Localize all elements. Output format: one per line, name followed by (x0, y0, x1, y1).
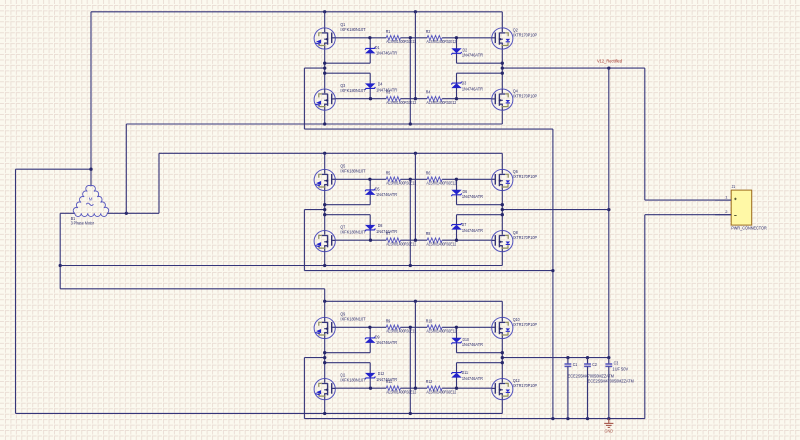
ground symbol GND (604, 419, 613, 434)
wire block2 gate bus 1 vertical (409, 179, 411, 265)
node block3 left FET source junction on bottom rail (323, 412, 326, 415)
node diode bottom-left tap (369, 387, 372, 390)
svg-text:R4: R4 (426, 90, 431, 95)
svg-text:J1: J1 (732, 184, 736, 189)
svg-text:IXFK180N10T: IXFK180N10T (340, 88, 366, 93)
svg-text:R10: R10 (426, 318, 433, 323)
svg-text:ALSR01400R0JE12: ALSR01400R0JE12 (426, 390, 456, 395)
node diode top-right tap (455, 178, 458, 181)
svg-text:ALSR01400R0JE12: ALSR01400R0JE12 (426, 242, 456, 247)
connector J1 PWR_CONNECTOR (715, 184, 767, 230)
node diode top-left tap (368, 36, 371, 39)
svg-text:R3: R3 (386, 90, 391, 95)
zener diode D8 (365, 225, 375, 231)
node left mid junction (323, 213, 326, 216)
svg-text:IXFK180N10T: IXFK180N10T (340, 27, 366, 32)
svg-text:D7: D7 (462, 222, 467, 227)
svg-text:R1: R1 (386, 29, 391, 34)
svg-text:2: 2 (725, 209, 728, 214)
wire block3 right FET column (501, 301, 503, 317)
svg-text:D8: D8 (378, 223, 383, 228)
svg-text:D9: D9 (375, 335, 380, 340)
node gate bus 1 top (409, 36, 412, 39)
svg-text:R7: R7 (386, 231, 391, 236)
wire D12 column (369, 363, 371, 389)
node right mid junction (501, 213, 504, 216)
node right mid2 junction (501, 208, 504, 211)
svg-text:D4: D4 (378, 82, 383, 87)
wire V12 bus vertical (608, 68, 610, 358)
node gate bus 1 bottom rail (409, 412, 412, 415)
wire block3 mid3 left (325, 362, 371, 364)
node capacitor C2 top (586, 356, 589, 359)
svg-text:1N4746ATR: 1N4746ATR (376, 50, 397, 55)
svg-text:1N4746ATR: 1N4746ATR (462, 376, 483, 381)
transistor Q12 (492, 378, 537, 400)
motor B1 (3 phase, delta) (71, 185, 109, 225)
wire block3 gate wire lower (335, 387, 386, 389)
wire D5 column (369, 179, 371, 204)
svg-text:R9: R9 (386, 318, 391, 323)
svg-text:1N4746ATR: 1N4746ATR (462, 53, 483, 58)
wire block1 gate wire lower (335, 98, 386, 100)
wire D2 column (456, 38, 458, 63)
node gate bus 1 bottom rail (409, 264, 412, 267)
resistor R7 (386, 231, 417, 246)
node block2 top rail / gate bus 2 (414, 152, 417, 155)
node block2 left FET source junction on bottom rail (323, 264, 326, 267)
node right mid2 junction (501, 66, 504, 69)
node diode top-left tap (368, 326, 371, 329)
resistor R4 (426, 90, 457, 105)
svg-text:1: 1 (725, 194, 728, 199)
svg-text:ALSR01400R0JE12: ALSR01400R0JE12 (386, 242, 416, 247)
wire phase-B riser to block2 top rail (158, 153, 160, 213)
node phase-A junction at motor riser (89, 168, 92, 171)
node left mid junction (323, 356, 326, 359)
wire phase-C horizontal to block3 (60, 288, 325, 290)
wire block2 right FET column (501, 153, 503, 169)
svg-text:1N4746ATR: 1N4746ATR (376, 192, 397, 197)
node diode bottom-right tap (455, 387, 458, 390)
svg-text:1N4746ATR: 1N4746ATR (462, 87, 483, 92)
node left mid junction (323, 62, 326, 65)
transistor Q1 (314, 22, 366, 49)
svg-text:C3: C3 (614, 361, 619, 366)
svg-text:1N4746ATR: 1N4746ATR (462, 342, 483, 347)
wire D10 column (456, 327, 458, 352)
wire block1 gate bus 1 vertical (409, 38, 411, 124)
wire block2 left FET column (324, 153, 326, 169)
wire block3 mid3 right (457, 362, 503, 364)
svg-text:R11: R11 (386, 379, 393, 384)
svg-text:ALSR01400R0JE12: ALSR01400R0JE12 (386, 390, 416, 395)
transistor Q10 (492, 317, 537, 339)
svg-text:R8: R8 (426, 231, 431, 236)
node diode bottom-left tap (369, 239, 372, 242)
svg-text:M: M (89, 197, 93, 202)
zener diode D10 (451, 338, 461, 344)
capacitor C3 (605, 358, 618, 419)
zener diode D7 (451, 223, 461, 229)
zener diode D4 (365, 83, 375, 89)
wire V12 from block1 mid to connector column (502, 67, 645, 69)
node V12 at block2 mid line (607, 208, 610, 211)
wire block3 mid2 left (gnd tap) (304, 357, 324, 359)
wire block1 right FET column (501, 12, 503, 28)
wire block2 mid1 left (325, 204, 371, 206)
wire phase-B motor to risers (107, 212, 159, 214)
resistor R12 (426, 379, 457, 394)
node GND bus at bottom rail (551, 417, 554, 420)
node block2 top rail / left FET drain (323, 152, 326, 155)
node diode top-right tap (455, 36, 458, 39)
wire block3 gate bus 2 vertical (414, 301, 416, 388)
zener diode D12 (365, 373, 375, 379)
svg-text:IXFK180N10T: IXFK180N10T (340, 230, 366, 235)
svg-text:C2: C2 (592, 362, 597, 367)
wire D3 column (456, 73, 458, 99)
node C2 bottom (586, 417, 589, 420)
resistor R11 (386, 379, 417, 394)
wire D7 column (456, 215, 458, 241)
svg-text:R2: R2 (426, 29, 431, 34)
wire block1 gate bus 2 vertical (414, 12, 416, 99)
node diode bottom-right tap (455, 239, 458, 242)
wire phase-A to motor apex vertical (90, 12, 92, 186)
node diode top-left tap (368, 178, 371, 181)
node gate bus 1 top (409, 326, 412, 329)
node gate bus 2 at lower gate wire (414, 97, 417, 100)
zener diode D9 (365, 337, 375, 343)
svg-text:R5: R5 (386, 170, 391, 175)
node gate bus 2 at lower gate wire (414, 239, 417, 242)
svg-text:1N4746ATR: 1N4746ATR (462, 228, 483, 233)
node C3 bottom / ground symbol (607, 417, 610, 420)
svg-text:ALSR01400R0JE12: ALSR01400R0JE12 (386, 181, 416, 186)
node diode bottom-right tap (455, 97, 458, 100)
wire block2 bottom rail (phase C) (60, 265, 502, 267)
resistor R8 (426, 231, 457, 246)
node block1 top rail / gate bus 2 (414, 10, 417, 13)
node left mid junction (323, 361, 326, 364)
wire phase-C left vertical (59, 213, 61, 288)
svg-text:D3: D3 (462, 80, 467, 85)
node C1 bottom (566, 417, 569, 420)
node right mid junction (501, 361, 504, 364)
node right mid junction (501, 62, 504, 65)
svg-text:V12_Rectified: V12_Rectified (597, 59, 623, 64)
svg-text:IXTR170P10P: IXTR170P10P (513, 174, 537, 179)
wire block1 mid1 left (325, 62, 371, 64)
wire block3 gate wire upper (335, 326, 386, 328)
transistor Q9 (314, 312, 366, 339)
node phase-C junction on block2 bottom rail (59, 264, 62, 267)
resistor R5 (386, 170, 417, 185)
wire GND vertical to pin2 (644, 215, 646, 419)
wire block1 gate wire upper (335, 37, 386, 39)
transistor Q8 (492, 230, 537, 252)
svg-text:D1: D1 (375, 45, 380, 50)
wire GND block2 drop (303, 210, 305, 271)
wire block2 gate bus 2 vertical (414, 153, 416, 240)
transistor Q2 (492, 27, 537, 49)
resistor R2 (426, 29, 457, 44)
svg-text:IXFK180N10T: IXFK180N10T (340, 317, 366, 322)
zener diode D3 (451, 82, 461, 88)
svg-text:D5: D5 (375, 187, 380, 192)
svg-text:IXTR170P10P: IXTR170P10P (513, 93, 537, 98)
node capacitor C3 top (607, 356, 610, 359)
wire block2 mid3 right (457, 214, 503, 216)
svg-text:IXFK180N10T: IXFK180N10T (340, 169, 366, 174)
node left mid junction (323, 208, 326, 211)
wire block2 mid2 left (gnd tap) (304, 209, 324, 211)
resistor R3 (386, 90, 417, 105)
transistor Q5 (314, 164, 366, 191)
svg-text:IXTR170P10P: IXTR170P10P (513, 32, 537, 37)
wire phase-B riser to block1 bottom rail (125, 124, 127, 213)
wire D11 column (456, 363, 458, 389)
wire block1 left FET column (324, 12, 326, 28)
wire block2 mid1 right (457, 204, 503, 206)
svg-text:1N4746ATR: 1N4746ATR (462, 194, 483, 199)
wire block2 gate wire upper (335, 178, 386, 180)
wire V12 to connector pin 1 (645, 199, 731, 201)
svg-text:1N4746ATR: 1N4746ATR (376, 340, 397, 345)
capacitor C2 (584, 358, 634, 419)
wire block1 mid3 right (457, 72, 503, 74)
node left mid junction (323, 203, 326, 206)
svg-text:ALSR01400R0JE12: ALSR01400R0JE12 (386, 329, 416, 334)
wire block1 mid3 left (325, 72, 371, 74)
svg-text:ALSR01400R0JE12: ALSR01400R0JE12 (386, 100, 416, 105)
svg-text:R12: R12 (426, 379, 433, 384)
node right mid junction (501, 203, 504, 206)
svg-text:R6: R6 (426, 170, 431, 175)
wire block3 left FET column (324, 301, 326, 317)
node left mid junction (323, 351, 326, 354)
svg-text:D11: D11 (462, 370, 469, 375)
svg-text:IXTR170P10P: IXTR170P10P (513, 383, 537, 388)
svg-text:PWR_CONNECTOR: PWR_CONNECTOR (731, 225, 767, 230)
svg-text:ALSR01400R0JE12: ALSR01400R0JE12 (426, 329, 456, 334)
wire V12 vertical to pin1 (644, 68, 646, 200)
node GND bus joins block2 (551, 269, 554, 272)
wire D6 column (456, 179, 458, 204)
resistor R9 (386, 318, 417, 333)
node gate bus 1 bottom rail (409, 122, 412, 125)
wire block2 top rail (phase B) (159, 152, 502, 154)
transistor Q11 (314, 373, 366, 400)
wire block2 gate wire lower (335, 239, 386, 241)
svg-text:ECE2S5M470050MZZATM: ECE2S5M470050MZZATM (568, 373, 614, 378)
node right mid junction (501, 351, 504, 354)
svg-text:ALSR01400R0JE12: ALSR01400R0JE12 (426, 181, 456, 186)
node left mid junction (323, 66, 326, 69)
pin 2 (715, 214, 731, 216)
svg-text:IXTR170P10P: IXTR170P10P (513, 322, 537, 327)
zener diode D1 (365, 47, 375, 53)
wire GND to connector pin 2 (645, 214, 731, 216)
wire block3 mid1 left (325, 352, 371, 354)
resistor R10 (426, 318, 457, 333)
wire block3 V12 mid line / capacitor rail (502, 357, 609, 359)
wire phase-A top: left riser horizontal (16, 168, 92, 170)
wire GND block1 drop (303, 68, 305, 129)
node V12 junction (607, 66, 610, 69)
wire block3 top rail (phase C) (325, 300, 503, 302)
resistor R1 (386, 29, 417, 44)
wire phase-A left vertical (15, 169, 17, 413)
wire GND block3 drop (303, 358, 305, 419)
wire block2 V12 mid line (502, 209, 609, 211)
wire block2 mid3 left (325, 214, 371, 216)
wire phase-C drop to block3 top rail (324, 289, 326, 302)
wire GND bottom rail (304, 418, 644, 420)
wire GND block1 horizontal (304, 128, 553, 130)
zener diode D5 (365, 189, 375, 195)
pin 1 (715, 199, 731, 201)
svg-text:D12: D12 (378, 371, 385, 376)
node right mid junction (501, 72, 504, 75)
svg-text:C1: C1 (573, 362, 578, 367)
svg-text:ALSR01400R0JE12: ALSR01400R0JE12 (426, 39, 456, 44)
wire GND bus vertical (552, 129, 554, 419)
node right mid2 junction (501, 356, 504, 359)
svg-text:ALSR01400R0JE12: ALSR01400R0JE12 (426, 100, 456, 105)
wire D4 column (369, 73, 371, 99)
node left mid junction (323, 72, 326, 75)
wire phase-C motor stub (60, 212, 75, 214)
wire D8 column (369, 215, 371, 241)
node diode bottom-left tap (369, 97, 372, 100)
capacitor C1 (565, 358, 615, 419)
wire block3 mid1 right (457, 352, 503, 354)
transistor Q7 (314, 225, 366, 252)
node block3 top rail / gate bus 2 (414, 300, 417, 303)
zener diode D6 (451, 190, 461, 196)
node capacitor C1 top (566, 356, 569, 359)
svg-text:1UF 50V: 1UF 50V (612, 366, 628, 371)
svg-text:IXFK180N10T: IXFK180N10T (340, 378, 366, 383)
svg-text:GND: GND (605, 429, 614, 434)
zener diode D2 (451, 48, 461, 54)
transistor Q3 (314, 83, 366, 110)
svg-text:3 Phase Motor: 3 Phase Motor (71, 220, 95, 225)
wire block3 gate bus 1 vertical (409, 327, 411, 413)
wire block1 mid2 left (gnd tap) (304, 67, 324, 69)
wire phase-A top rail block1 (91, 11, 502, 13)
node diode top-right tap (455, 326, 458, 329)
node phase-B junction (125, 212, 128, 215)
zener diode D11 (451, 371, 461, 377)
wire D9 column (369, 327, 371, 352)
svg-text:ECE2S5M470050MZZATM: ECE2S5M470050MZZATM (588, 379, 634, 384)
transistor Q6 (492, 169, 537, 191)
svg-text:IXTR170P10P: IXTR170P10P (513, 235, 537, 240)
svg-text:ALSR01400R0JE12: ALSR01400R0JE12 (386, 39, 416, 44)
node block1 left FET source junction on bottom rail (323, 122, 326, 125)
wire block1 mid1 right (457, 62, 503, 64)
wire block3 bottom rail (phase A) (16, 412, 503, 414)
resistor R6 (426, 170, 457, 185)
node block1 top rail / left FET drain (323, 10, 326, 13)
node gate bus 2 at lower gate wire (414, 387, 417, 390)
wire D1 column (369, 38, 371, 63)
wire GND block2 horizontal (304, 270, 553, 272)
transistor Q4 (492, 88, 537, 110)
node gate bus 1 top (409, 178, 412, 181)
wire block1 bottom rail (phase B) (126, 123, 502, 125)
node block3 top rail / left FET drain (323, 300, 326, 303)
